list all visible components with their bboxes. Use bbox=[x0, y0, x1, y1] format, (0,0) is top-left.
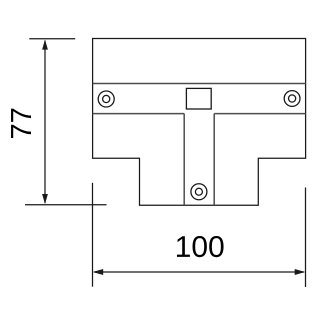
label 77 bbox=[11, 109, 31, 138]
dimension line 77 (vertical) bbox=[44, 41, 46, 204]
hole left (inner) bbox=[103, 95, 110, 102]
arrowhead 77 top bbox=[42, 40, 48, 50]
wire: band bottom line left segment bbox=[93, 113, 185, 115]
wire: band bottom line right segment bbox=[214, 113, 305, 115]
arrowhead 100 left bbox=[93, 269, 104, 275]
part outline (T-shaped bracket) bbox=[93, 39, 306, 206]
arrowhead 100 right bbox=[295, 269, 306, 275]
hole right (outer) bbox=[284, 91, 300, 107]
wire: band top line bbox=[93, 83, 306, 85]
extension line: dim 100 right bbox=[305, 188, 307, 288]
label 100 bbox=[177, 236, 224, 257]
hole bottom (outer) bbox=[191, 184, 207, 200]
wire: channel right vertical bbox=[213, 114, 215, 206]
square hole bbox=[186, 88, 211, 109]
hole right (inner) bbox=[289, 95, 296, 102]
extension line: dim 100 left bbox=[92, 183, 94, 287]
extension line: dim 77 top bbox=[29, 38, 75, 40]
hole left (outer) bbox=[98, 91, 114, 107]
hole bottom (inner) bbox=[195, 188, 202, 195]
arrowhead 77 bottom bbox=[42, 194, 48, 204]
wire: channel left vertical bbox=[183, 114, 185, 206]
dimension line 100 (horizontal) bbox=[94, 271, 304, 273]
extension line: dim 77 bottom bbox=[25, 204, 107, 206]
